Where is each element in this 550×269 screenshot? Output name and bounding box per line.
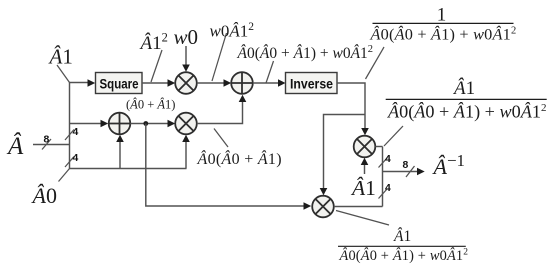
svg-text:Â: Â: [6, 132, 24, 160]
wire: A0 riser to adder1 bottom: [116, 135, 124, 169]
svg-text:8: 8: [44, 135, 50, 146]
pointer from mul2 out to A0(A0+A1) label: [214, 129, 228, 148]
wire: output bus vertical: [382, 147, 384, 207]
svg-text:w0: w0: [174, 25, 199, 49]
box Inverse: [286, 73, 338, 94]
svg-text:Â1: Â1: [350, 176, 376, 200]
fraction 3 bar: [338, 245, 466, 247]
svg-text:8: 8: [403, 160, 409, 171]
svg-text:Â12: Â12: [139, 31, 168, 55]
wire: mul3 out to output bus: [375, 146, 382, 148]
wire: mul2 out right and up to adder2: [197, 95, 247, 124]
wire: Inverse out right then down to mul3: [337, 83, 369, 135]
fraction 1 bar: [373, 22, 514, 24]
svg-text:Â0(Â0 + Â1) + w0Â12: Â0(Â0 + Â1) + w0Â12: [237, 44, 374, 62]
wire: (A0+A1) branch down and right to mul4: [146, 124, 311, 210]
svg-text:4: 4: [73, 153, 79, 164]
svg-text:Â0(Â0 + Â1) + w0Â12: Â0(Â0 + Â1) + w0Â12: [387, 101, 546, 123]
pointer from wire to sum expression label: [266, 61, 274, 83]
pointer from bus corner to fraction 2: [384, 126, 403, 146]
svg-text:4: 4: [385, 183, 391, 194]
adder circle X2: [231, 72, 253, 94]
pointer from inverse junction to fraction 1: [366, 47, 385, 79]
wire: left vertical bus: [69, 83, 71, 169]
svg-text:4: 4: [385, 154, 391, 165]
svg-text:Â1: Â1: [452, 77, 475, 99]
multiplier circle M3 (A1 x inv): [354, 136, 376, 158]
pointer from wire to A1^2 label: [151, 50, 162, 82]
slash 4 upper on output bus: [379, 158, 388, 168]
slash 4 lower on output bus: [379, 189, 388, 199]
wire: inverse branch left and down to mul4 top: [320, 115, 365, 196]
fraction 2 bar: [386, 98, 547, 100]
junction dot node (A0+A1): [143, 121, 148, 126]
wire: mul1 out to adder2: [197, 79, 231, 87]
svg-text:1: 1: [437, 5, 447, 26]
wire: adder1 out to mul2: [130, 120, 175, 128]
pointer from mul4 to fraction 3: [336, 211, 389, 226]
slash 8 on input: [42, 139, 51, 150]
pointer from wire to w0A1^2 label: [212, 33, 227, 81]
multiplier circle M1 (w0 x A1^2): [175, 72, 197, 94]
svg-text:Â1: Â1: [48, 45, 73, 69]
wire: Square out to mul1: [142, 79, 175, 87]
wire: A1 to adder1: [70, 120, 109, 128]
svg-text:Â0(Â0 + Â1): Â0(Â0 + Â1): [197, 149, 282, 168]
svg-text:Â0(Â0 + Â1) + w0Â12: Â0(Â0 + Â1) + w0Â12: [339, 247, 469, 264]
svg-text:Â−1: Â−1: [432, 151, 466, 179]
wire: adder2 out to Inverse: [253, 79, 286, 87]
svg-text:Inverse: Inverse: [290, 75, 333, 91]
svg-text:Â1: Â1: [393, 228, 411, 245]
svg-text:w0Â12: w0Â12: [210, 21, 255, 41]
wire: w0 input arrow down: [182, 46, 190, 72]
wire: A0 riser to mul2 bottom: [182, 135, 190, 169]
slash 4 lower on bus: [65, 157, 74, 168]
multiplier circle M4 ((A0+A1) x inv): [312, 196, 334, 218]
wire: A1 input up into mul3: [361, 158, 369, 174]
wire: A input horizontal: [33, 144, 70, 146]
pointer from A1 label to corner: [57, 65, 70, 83]
wire: output arrow to A^-1: [383, 168, 425, 176]
wire: mul4 out to output bus: [334, 206, 383, 208]
svg-text:Â0: Â0: [31, 183, 57, 208]
svg-text:Square: Square: [100, 75, 139, 91]
pointer from A0 label to corner: [59, 169, 70, 182]
slash 4 upper on bus: [65, 130, 74, 141]
adder circle X1 (A0+A1): [109, 113, 131, 135]
slash 8 on output: [406, 166, 415, 177]
box Square: [96, 73, 143, 94]
wire: A0 horizontal: [70, 168, 187, 170]
svg-text:(Â0 + Â1): (Â0 + Â1): [126, 98, 175, 112]
svg-text:Â0(Â0 + Â1) + w0Â12: Â0(Â0 + Â1) + w0Â12: [370, 25, 517, 44]
multiplier circle M2 (A0 x (A0+A1)): [175, 113, 197, 135]
wire: A1 to Square: [70, 79, 96, 87]
svg-text:4: 4: [73, 127, 79, 138]
